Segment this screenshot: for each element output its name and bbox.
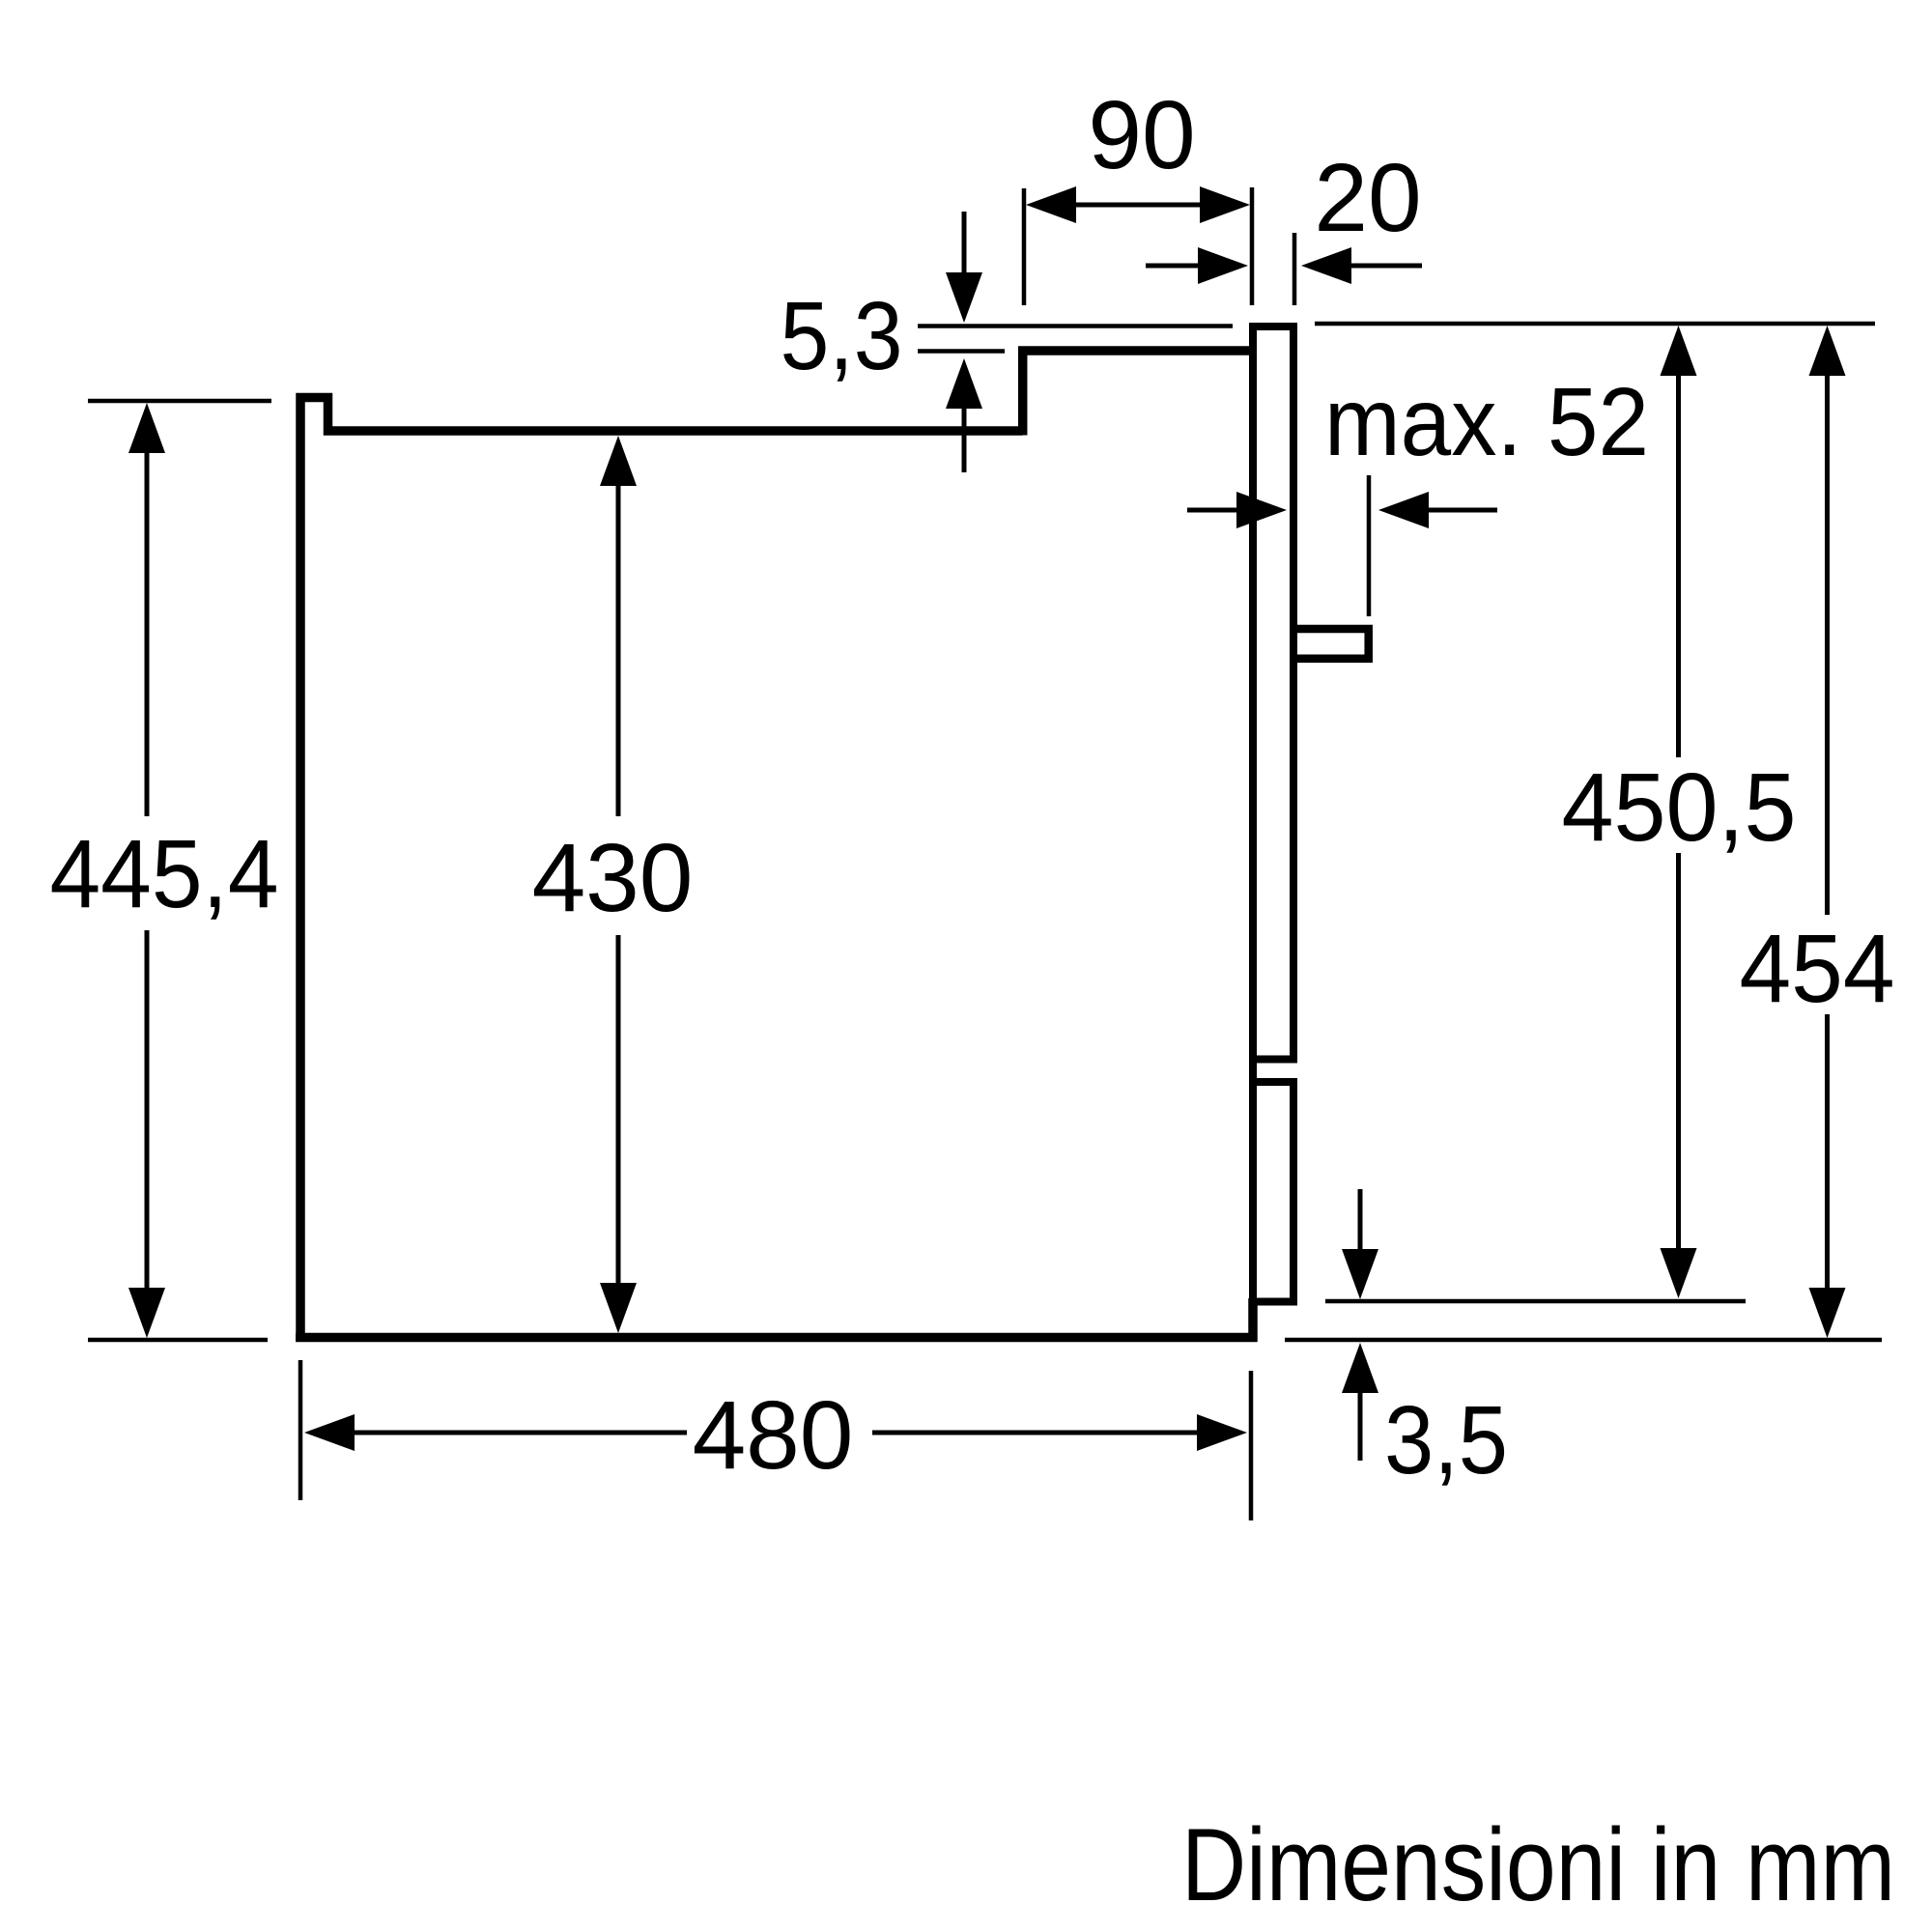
20 right extension line [1293, 233, 1297, 305]
svg-text:20: 20 [1314, 144, 1421, 252]
svg-text:430: 430 [532, 824, 694, 932]
oven front bar (upper section) [1249, 323, 1297, 1307]
dimension 430 vertical arrow [600, 436, 637, 1333]
svg-text:90: 90 [1088, 81, 1195, 189]
max.52 left arrow (pointing right) [1187, 492, 1287, 528]
right mid extension line (450,5 bottom) [1325, 1299, 1746, 1304]
20 right arrow (pointing left) [1301, 247, 1422, 284]
max.52 extension line [1367, 475, 1372, 616]
480 right extension line [1249, 1371, 1254, 1520]
dimension 480 horizontal arrow [304, 1414, 1247, 1451]
480 left extension line [298, 1360, 303, 1500]
worktop line (5,3 upper) [918, 324, 1233, 328]
3,5 upper arrow (pointing down) [1342, 1189, 1378, 1299]
right bottom extension line (454 bottom) [1285, 1338, 1882, 1343]
svg-text:3,5: 3,5 [1384, 1386, 1508, 1494]
90 left extension line [1022, 188, 1027, 305]
mounting tab on bar [1297, 629, 1369, 659]
dimension 454 vertical arrow [1809, 326, 1846, 1338]
svg-text:Dimensioni in mm: Dimensioni in mm [1181, 1806, 1895, 1922]
dimension 450,5 vertical arrow [1661, 326, 1697, 1298]
oven front bar (lower section) [1249, 1078, 1297, 1306]
extension line 445,4 top [88, 399, 271, 404]
svg-text:450,5: 450,5 [1562, 753, 1797, 862]
3,5 lower arrow (pointing up) [1342, 1343, 1378, 1461]
right top extension line [1315, 322, 1875, 327]
extension line 445,4 bottom [88, 1338, 268, 1343]
niche outline (left wall, notch, top shelf, step, bottom) [296, 351, 1258, 1342]
svg-text:445,4: 445,4 [50, 820, 279, 928]
90 right extension line [1250, 187, 1255, 305]
dimension 90 horizontal arrow [1026, 186, 1250, 223]
max.52 right arrow (pointing left) [1378, 492, 1497, 528]
svg-text:5,3: 5,3 [781, 282, 903, 390]
svg-text:480: 480 [693, 1381, 854, 1490]
5,3 lower arrow (pointing up) [946, 358, 982, 472]
20 left arrow (pointing right) [1146, 247, 1248, 284]
5,3 lower line [918, 349, 1005, 354]
svg-text:454: 454 [1740, 915, 1895, 1023]
svg-text:max. 52: max. 52 [1324, 368, 1649, 476]
5,3 upper arrow (pointing down) [946, 212, 982, 323]
dimension 445,4 vertical arrow [128, 403, 165, 1338]
